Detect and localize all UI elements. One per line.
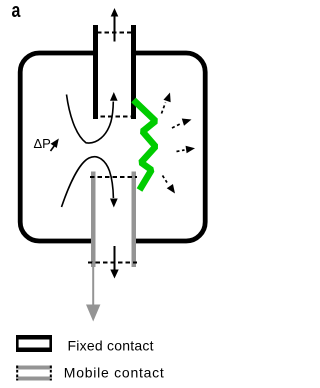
upper flow streamline (67, 92, 118, 143)
arc exhaust arrow right (177, 144, 196, 153)
svg-text:ΔP: ΔP (34, 136, 51, 151)
arc exhaust arrow upper-right (172, 116, 193, 128)
fixed contact U1 right wall (131, 25, 136, 119)
lower flow streamline (62, 157, 118, 208)
mobile contact right wall (gray) (132, 172, 137, 268)
fixed contact top dashed end (97, 32, 132, 34)
bottom exhaust arrow (110, 246, 118, 279)
top exhaust arrow (111, 8, 119, 42)
arc exhaust arrow upper (162, 91, 174, 113)
legend fixed contact symbol (16, 335, 52, 352)
fixed contact U1 left wall (93, 25, 98, 119)
arc exhaust arrow lower (163, 176, 179, 196)
mobile contact top dashed end (90, 176, 137, 178)
svg-text:Fixed contact: Fixed contact (68, 338, 154, 354)
delta-P arrow (51, 136, 62, 151)
fixed contact bottom dashed end (93, 116, 136, 118)
chamber wall (20, 46, 205, 247)
legend mobile contact symbol (16, 366, 52, 381)
svg-text:Mobile contact: Mobile contact (64, 365, 164, 381)
svg-text:a: a (12, 0, 22, 21)
mobile contact bottom dashed end (88, 262, 137, 264)
mobile contact travel arrow (gray) (86, 262, 100, 322)
mobile contact left wall (gray) (91, 172, 96, 268)
arc (green lightning bolt) (134, 100, 156, 190)
